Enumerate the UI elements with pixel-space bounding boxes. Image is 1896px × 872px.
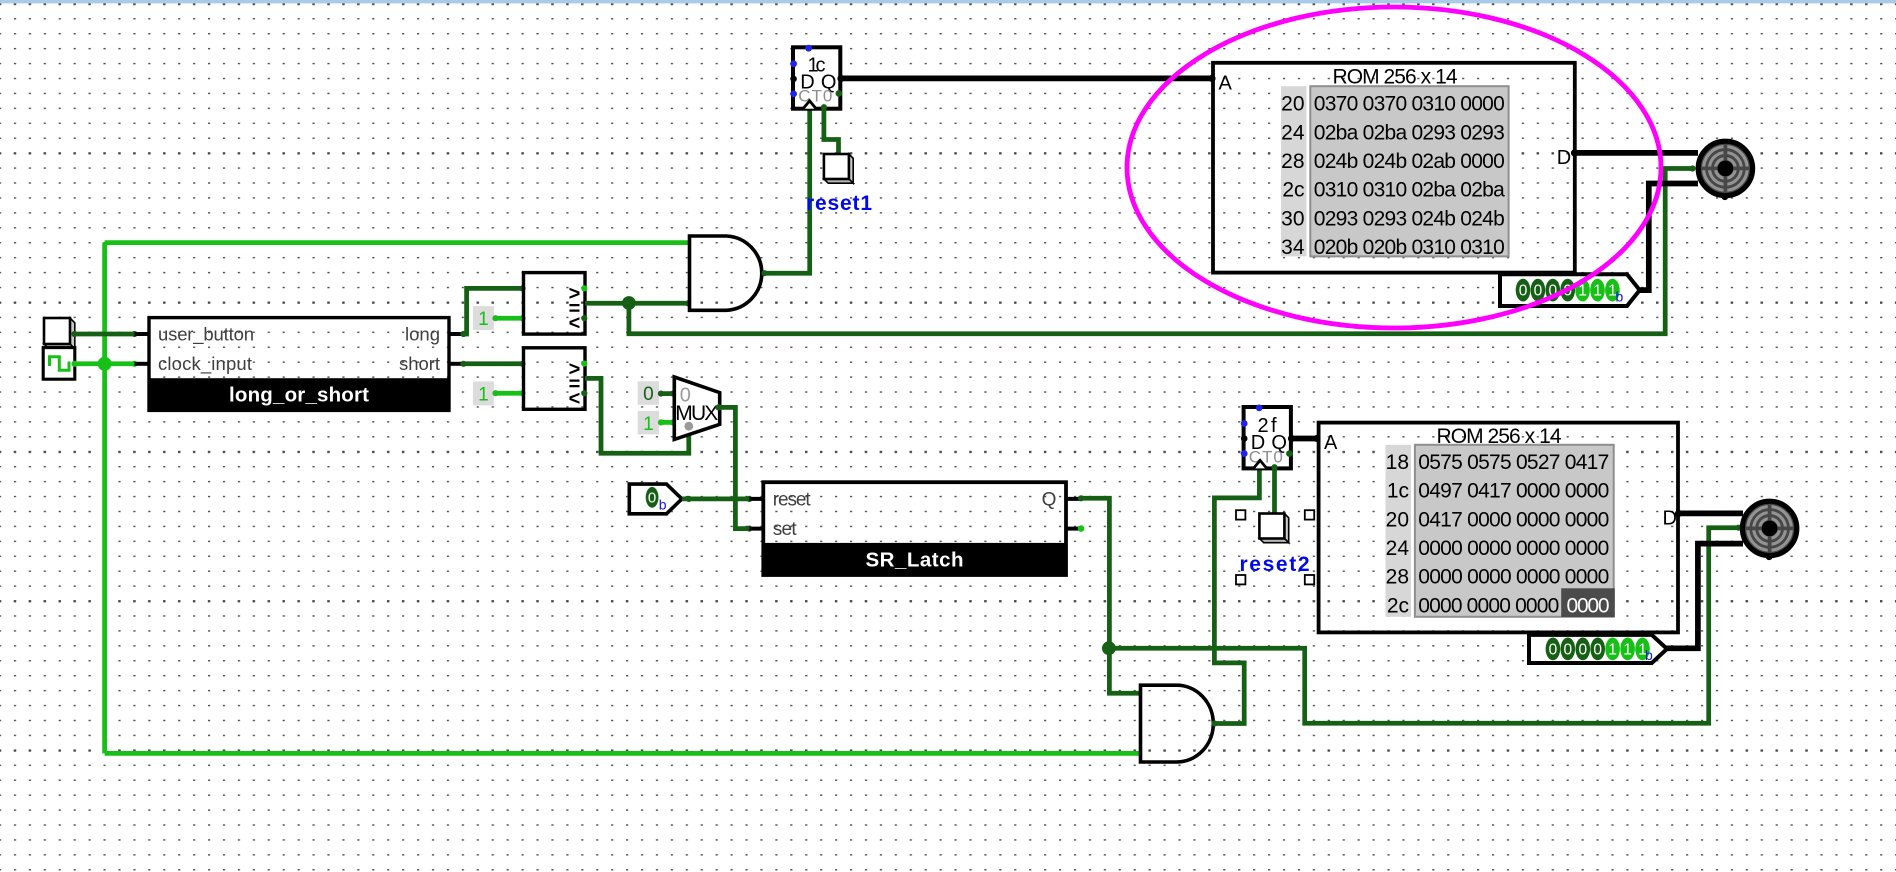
wire const1 to comparator2 input b [492, 390, 525, 396]
svg-text:clock_input: clock_input [158, 353, 252, 375]
wire clock net to AND2 bottom input [105, 751, 1141, 756]
svg-text:24: 24 [1281, 121, 1305, 144]
svg-text:0497 0417 0000 0000: 0497 0417 0000 0000 [1418, 480, 1609, 503]
bus speaker2 minus pin to probe2 [1664, 544, 1743, 649]
svg-text:ROM 256 x 14: ROM 256 x 14 [1333, 65, 1458, 88]
svg-text:0293 0293 024b 024b: 0293 0293 024b 024b [1314, 207, 1505, 230]
bus DFF1 Q to ROM1 address A [837, 75, 1215, 82]
svg-text:28: 28 [1386, 566, 1409, 589]
svg-text:2c: 2c [1387, 594, 1409, 617]
svg-text:34: 34 [1281, 236, 1305, 259]
svg-text:CT0: CT0 [1249, 447, 1283, 466]
svg-text:1: 1 [478, 309, 489, 330]
magenta highlight ellipse [1127, 7, 1661, 328]
svg-text:20: 20 [1281, 93, 1304, 116]
svg-text:020b 020b 0310 0310: 020b 020b 0310 0310 [1314, 236, 1505, 259]
svg-text:18: 18 [1386, 451, 1409, 474]
wire const0 to MUX input0 [658, 391, 676, 397]
svg-text:0000 0000 0000: 0000 0000 0000 [1418, 594, 1559, 617]
wire long output to comparator1 input a [460, 285, 525, 337]
svg-text:long: long [405, 323, 440, 344]
svg-text:<: < [569, 313, 581, 335]
junction Q net [1102, 641, 1116, 655]
wire clock net to AND1 top input [105, 240, 690, 245]
wire tag 0b to SR latch reset [682, 496, 753, 502]
bus ROM1 D to speaker1 plus pin [1571, 149, 1698, 156]
svg-text:b: b [1645, 647, 1653, 663]
svg-text:set: set [773, 519, 798, 540]
svg-text:0: 0 [1563, 642, 1572, 659]
svg-text:0: 0 [1519, 283, 1528, 300]
svg-text:1: 1 [478, 384, 489, 405]
bus speaker1 minus pin to probe1 [1640, 184, 1698, 291]
bus ROM2 D to speaker2 plus pin [1675, 510, 1743, 517]
wire clock to long_or_short [71, 361, 137, 367]
wire MUX output to SR latch set [715, 404, 752, 531]
svg-text:MUX: MUX [675, 402, 718, 425]
svg-text:A: A [1219, 72, 1233, 94]
constant 0 for MUX input0 [638, 381, 659, 405]
svg-text:short: short [399, 353, 440, 374]
svg-text:20: 20 [1386, 508, 1409, 531]
wire AND1 output to DFF1 clock [761, 109, 809, 277]
svg-text:0575 0575 0527 0417: 0575 0575 0527 0417 [1418, 451, 1609, 474]
net tag constant 0b (reset source) [629, 484, 682, 514]
svg-text:1: 1 [1623, 642, 1632, 659]
ROM1 256x14 [1213, 63, 1575, 273]
custom component long_or_short [135, 318, 464, 411]
push button reset1 [824, 154, 853, 183]
wire comparator2 = output to MUX select [585, 378, 689, 453]
svg-text:1: 1 [1608, 642, 1617, 659]
svg-text:D: D [1557, 147, 1571, 169]
svg-text:<: < [569, 388, 581, 410]
comparator U1 long==1 [524, 273, 588, 335]
wire DFF2 aux pin to reset2 button [1271, 464, 1277, 517]
measurement probe1 value 0000111b [1500, 274, 1640, 306]
wire DFF1 aux pin to reset1 button [821, 104, 842, 158]
input button user_button [44, 318, 75, 349]
constant 1 for comparator1 b [473, 306, 494, 330]
speaker2 [1742, 501, 1796, 560]
svg-text:reset: reset [773, 489, 812, 510]
svg-text:2c: 2c [1282, 179, 1304, 202]
push button reset2 (selected) [1259, 514, 1288, 543]
selection handles around reset2 [1236, 510, 1314, 584]
wire comparator1 = output to AND1 input b [585, 300, 691, 306]
svg-text:0000: 0000 [1567, 594, 1610, 617]
constant 1 for MUX input1 [638, 411, 659, 435]
wire Q net to speaker2 mid pin [1109, 525, 1741, 724]
svg-text:0: 0 [1578, 642, 1587, 659]
wire comparator1 net long run to speaker1 mid pin [629, 165, 1696, 333]
svg-text:long_or_short: long_or_short [229, 384, 369, 407]
and-gate AND1 [690, 236, 762, 310]
junction comparator1 output net [622, 296, 636, 310]
custom component SR_Latch [749, 482, 1084, 575]
wire Q net to AND2 top input [1109, 648, 1140, 693]
wire const1 to comparator1 input b [492, 315, 525, 321]
svg-text:b: b [659, 497, 667, 513]
svg-text:024b 024b 02ab 0000: 024b 024b 02ab 0000 [1314, 150, 1505, 173]
clock component clock_input [43, 348, 75, 380]
wire AND2 output to DFF2 clock (jog) [1211, 470, 1259, 727]
svg-text:D: D [1663, 508, 1677, 530]
svg-text:0000 0000 0000 0000: 0000 0000 0000 0000 [1418, 566, 1609, 589]
wire const1 to MUX input1 [658, 419, 676, 425]
svg-text:02ba 02ba 0293 0293: 02ba 02ba 0293 0293 [1314, 121, 1505, 144]
speaker1 [1698, 141, 1752, 200]
bus DFF2 Q to ROM2 address A [1288, 435, 1321, 442]
and-gate AND2 [1141, 685, 1214, 762]
svg-text:SR_Latch: SR_Latch [866, 549, 964, 572]
wire clock net vertical trunk [102, 243, 107, 754]
svg-text:24: 24 [1386, 537, 1410, 560]
comparator U2 short==1 [524, 348, 588, 410]
wire short output to comparator2 input a [460, 361, 525, 367]
svg-text:0: 0 [648, 489, 656, 506]
svg-text:1: 1 [643, 414, 654, 435]
svg-text:0417 0000 0000 0000: 0417 0000 0000 0000 [1418, 508, 1609, 531]
svg-text:CT0: CT0 [798, 87, 832, 106]
svg-text:b: b [1616, 289, 1624, 305]
svg-text:Q: Q [1042, 489, 1057, 510]
svg-text:A: A [1324, 432, 1338, 454]
wire user_button to long_or_short [71, 331, 137, 337]
svg-text:1c: 1c [1387, 480, 1409, 503]
ROM2 256x14 [1319, 423, 1678, 633]
junction clock net at clock_input row [98, 357, 112, 371]
constant 1 for comparator2 b [473, 381, 494, 405]
svg-text:0310 0310 02ba 02ba: 0310 0310 02ba 02ba [1314, 179, 1505, 202]
svg-text:0: 0 [1534, 283, 1543, 300]
svg-text:reset1: reset1 [806, 192, 872, 215]
register DFF2 value 2f [1241, 405, 1293, 469]
svg-text:1: 1 [1593, 283, 1602, 300]
multiplexer MUX1 [674, 377, 719, 439]
svg-text:0: 0 [643, 384, 654, 405]
toolbar edge strip [0, 0, 1896, 3]
svg-text:0000 0000 0000 0000: 0000 0000 0000 0000 [1418, 537, 1609, 560]
svg-text:28: 28 [1281, 150, 1304, 173]
svg-text:0370 0370 0310 0000: 0370 0370 0310 0000 [1314, 93, 1505, 116]
wire SR latch Q to junction [1078, 495, 1110, 648]
svg-text:user_button: user_button [158, 323, 254, 345]
svg-text:0: 0 [1593, 642, 1602, 659]
svg-text:30: 30 [1281, 207, 1304, 230]
register DFF1 value 1c [790, 45, 842, 109]
measurement probe2 value 0000111b [1529, 635, 1667, 663]
svg-text:0: 0 [1549, 642, 1558, 659]
